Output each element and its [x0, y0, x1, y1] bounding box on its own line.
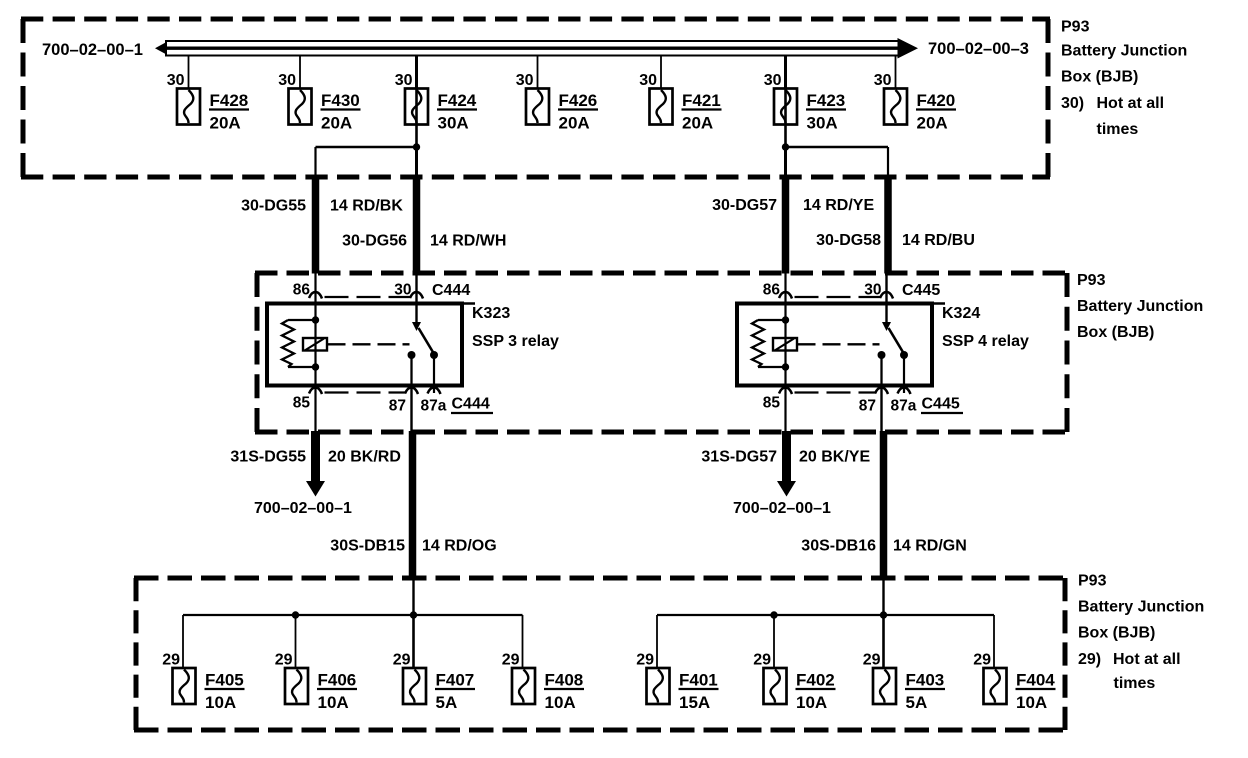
svg-text:30S-DB15: 30S-DB15: [330, 538, 405, 555]
wire: drop to fuse F408: [522, 615, 524, 668]
svg-text:20 BK/RD: 20 BK/RD: [328, 449, 401, 466]
svg-text:20A: 20A: [210, 114, 241, 133]
fuse F428 symbol: [177, 89, 200, 125]
svg-text:30-DG57: 30-DG57: [712, 197, 777, 214]
connector label C445 (bottom, underlined): [921, 396, 963, 414]
relay K324 coil actuator box: [773, 338, 797, 351]
svg-text:30: 30: [516, 72, 534, 89]
fuse F405 value label F405/10A: [205, 671, 245, 713]
wire: F424 junction continues down (30-DG56 feed): [415, 147, 418, 180]
wire: drop to fuse F407: [412, 615, 415, 668]
connector C445 top dashed line: [795, 296, 881, 298]
svg-text:C444: C444: [432, 282, 470, 299]
svg-text:30: 30: [864, 282, 881, 299]
off-page arrow for 31S-DG57: [777, 481, 796, 497]
svg-text:F420: F420: [917, 91, 956, 110]
wire bundle 30S-DB16 / 14 RD/GN: [880, 431, 888, 579]
off-page arrow for 31S-DG55: [306, 481, 325, 497]
svg-text:C445: C445: [922, 396, 960, 413]
fuse F428 value label F428/20A: [209, 91, 249, 133]
svg-text:30): 30): [1061, 95, 1084, 112]
relay K323 coil actuator box: [303, 338, 327, 351]
svg-text:P93: P93: [1078, 573, 1107, 590]
wire: relay K323 pin 87 below box: [410, 386, 412, 432]
connector C445 top row: pin 86 cavity: [779, 292, 792, 299]
junction node: [410, 611, 417, 618]
fuse F406 value label F406/10A: [317, 671, 357, 713]
wire: feed into bottom fuse bank at x=883.5: [882, 579, 884, 615]
wire bundle 31S-DG57 / 20 BK/YE (to ground splice): [782, 431, 791, 481]
svg-text:times: times: [1114, 675, 1156, 692]
dashed box: middle battery junction box P93: [255, 273, 1069, 432]
relay K324 box: [737, 304, 932, 386]
fuse F404 symbol: [984, 668, 1007, 704]
svg-text:29): 29): [1078, 651, 1101, 668]
svg-text:K323: K323: [472, 305, 510, 322]
wire: relay K324 pin 87a short stub to connector: [903, 386, 905, 393]
svg-text:14 RD/GN: 14 RD/GN: [893, 538, 967, 555]
wire: relay K323 pin 87a short stub to connector: [433, 386, 435, 393]
svg-text:86: 86: [763, 282, 781, 299]
junction node: [292, 611, 299, 618]
fuse F424 value label F424/30A: [437, 91, 477, 133]
svg-text:30: 30: [764, 72, 782, 89]
connector C445 top row: pin 30 cavity: [880, 292, 893, 299]
fuse F423 value label F423/30A: [806, 91, 846, 133]
svg-text:30: 30: [167, 72, 185, 89]
svg-text:700–02–00–1: 700–02–00–1: [42, 41, 143, 59]
svg-text:87a: 87a: [421, 398, 447, 415]
svg-text:C445: C445: [902, 282, 940, 299]
wire: relay K323 pin 87a stub: [433, 355, 435, 386]
svg-text:85: 85: [763, 395, 781, 412]
relay K323 switch blade: [419, 328, 434, 353]
svg-text:14 RD/BK: 14 RD/BK: [330, 198, 403, 215]
svg-text:20A: 20A: [321, 114, 352, 133]
fuse F420 value label F420/20A: [916, 91, 956, 133]
wire: into relay K323 pin 86: [314, 273, 316, 304]
svg-text:Hot at all: Hot at all: [1113, 651, 1181, 668]
svg-text:Battery Junction: Battery Junction: [1077, 298, 1203, 315]
relay K324 switch common from pin 30: [882, 304, 891, 332]
relay K323 contact 87 node: [408, 351, 416, 359]
svg-text:30-DG58: 30-DG58: [816, 232, 881, 249]
svg-text:10A: 10A: [796, 693, 827, 712]
wire: into relay K323 pin 30: [415, 273, 417, 304]
svg-text:P93: P93: [1077, 272, 1106, 289]
relay K324 switch blade: [889, 328, 904, 353]
annotation: bottom box P93 description: [1078, 573, 1204, 693]
svg-text:700–02–00–1: 700–02–00–1: [254, 500, 352, 517]
relay K324 actuation dashed link: [798, 343, 880, 345]
svg-text:30: 30: [639, 72, 657, 89]
svg-text:86: 86: [293, 282, 311, 299]
svg-text:29: 29: [863, 652, 881, 669]
svg-text:30A: 30A: [438, 114, 469, 133]
svg-text:F421: F421: [682, 91, 721, 110]
wire: feed into bottom fuse bank at x=413.5: [412, 579, 414, 615]
fuse F421 symbol: [650, 89, 673, 125]
svg-text:10A: 10A: [545, 693, 576, 712]
relay K323 coil resistance winding: [282, 320, 316, 367]
svg-text:Hot at all: Hot at all: [1097, 95, 1165, 112]
svg-text:87a: 87a: [891, 398, 917, 415]
wire: F423 junction continues down (30-DG57 feed): [784, 147, 787, 180]
svg-text:14 RD/YE: 14 RD/YE: [803, 197, 874, 214]
fuse F402 symbol: [764, 668, 787, 704]
fuse F408 value label F408/10A: [544, 671, 584, 713]
svg-text:14 RD/OG: 14 RD/OG: [422, 538, 497, 555]
svg-text:30A: 30A: [807, 114, 838, 133]
wire: into relay K324 pin 30: [885, 273, 887, 304]
wire: drop to fuse F401: [656, 615, 658, 668]
relay K324 contact 87 node: [878, 351, 886, 359]
svg-text:F424: F424: [438, 91, 477, 110]
svg-text:F407: F407: [436, 671, 475, 690]
svg-text:15A: 15A: [679, 693, 710, 712]
fuse F426 value label F426/20A: [558, 91, 598, 133]
svg-text:700–02–00–3: 700–02–00–3: [928, 40, 1029, 58]
fuse F401 value label F401/15A: [679, 671, 719, 713]
fuse F426 symbol: [526, 89, 549, 125]
svg-text:29: 29: [162, 652, 180, 669]
svg-text:K324: K324: [942, 305, 980, 322]
connector C444 top row: pin 86 cavity: [309, 292, 322, 299]
svg-text:31S-DG57: 31S-DG57: [701, 449, 777, 466]
wire: drop to fuse F402: [773, 615, 775, 668]
svg-text:20A: 20A: [917, 114, 948, 133]
svg-text:14 RD/BU: 14 RD/BU: [902, 232, 975, 249]
svg-text:Box (BJB): Box (BJB): [1077, 324, 1154, 341]
svg-text:5A: 5A: [436, 693, 458, 712]
svg-text:SSP 4 relay: SSP 4 relay: [942, 333, 1029, 350]
relay K323 actuation dashed link: [328, 343, 410, 345]
svg-text:30: 30: [395, 72, 413, 89]
wire: drop to fuse F405: [182, 615, 184, 668]
connector label C445 (top): [902, 282, 945, 304]
fuse F401 symbol: [647, 668, 670, 704]
wire: bus drop to fuse F420: [895, 56, 897, 90]
svg-text:87: 87: [389, 398, 406, 415]
relay K323 coil junction node (bottom): [312, 363, 319, 370]
svg-text:SSP 3 relay: SSP 3 relay: [472, 333, 559, 350]
svg-text:10A: 10A: [1016, 693, 1047, 712]
svg-text:F428: F428: [210, 91, 249, 110]
relay K324 coil resistance winding: [752, 320, 786, 367]
svg-text:20A: 20A: [559, 114, 590, 133]
connector C445 bottom dashed line: [795, 391, 876, 393]
fuse F421 value label F421/20A: [682, 91, 722, 133]
connector C444 bottom row: pin 87a cavity: [428, 388, 441, 395]
svg-text:14 RD/WH: 14 RD/WH: [430, 233, 506, 250]
connector C444 top row: pin 30 cavity: [410, 292, 423, 299]
svg-text:C444: C444: [452, 396, 490, 413]
wire: branch from F424 junction left then down (30-DG55 feed): [316, 147, 418, 180]
relay K323 box: [267, 304, 462, 386]
annotation: top box P93 description: [1061, 19, 1187, 139]
wire bundle 30-DG57 / 14 RD/YE: [782, 178, 790, 274]
fuse F406 symbol: [285, 668, 308, 704]
relay K323 contact 87a node: [430, 351, 438, 359]
fuse F423 symbol: [774, 89, 797, 125]
wire: relay K323 pin 85 below box: [314, 386, 316, 432]
wire bundle 30-DG56 / 14 RD/WH: [413, 178, 421, 274]
svg-text:29: 29: [502, 652, 520, 669]
dashed box: bottom battery junction box P93: [134, 578, 1067, 730]
wire: relay K324 pin 87a stub: [903, 355, 905, 386]
svg-text:29: 29: [275, 652, 293, 669]
wire bundle 30-DG55 / 14 RD/BK: [312, 178, 320, 274]
relay K324 coil supply wire (pin 86 to 85 through coil): [784, 304, 786, 387]
svg-text:F430: F430: [321, 91, 360, 110]
wire: branch from F423 junction right then down (30-DG58 feed): [785, 147, 889, 180]
relay K324 contact 87a node: [900, 351, 908, 359]
svg-text:5A: 5A: [906, 693, 928, 712]
fuse F402 value label F402/10A: [796, 671, 836, 713]
connector C445 bottom row: pin 85 cavity: [779, 388, 792, 395]
wire: bus drop to fuse F430: [299, 56, 301, 90]
wire: relay K323 pin 87 down: [410, 355, 412, 386]
svg-text:30-DG56: 30-DG56: [342, 233, 407, 250]
connector C444 bottom row: pin 85 cavity: [309, 388, 322, 395]
fuse F403 value label F403/5A: [905, 671, 945, 713]
wire: distribution bus: [183, 614, 523, 616]
junction node on F423 wire: [782, 143, 789, 150]
connector label C444 (top): [432, 282, 475, 304]
svg-text:F426: F426: [559, 91, 598, 110]
wire: distribution bus: [657, 614, 994, 616]
relay K323 coil junction node (top): [312, 316, 319, 323]
wire bundle 30S-DB15 / 14 RD/OG: [409, 431, 417, 579]
fuse F407 value label F407/5A: [435, 671, 475, 713]
svg-text:F402: F402: [796, 671, 835, 690]
svg-text:F401: F401: [679, 671, 718, 690]
svg-text:F403: F403: [906, 671, 945, 690]
svg-text:29: 29: [753, 652, 771, 669]
wire: relay K324 pin 87 below box: [880, 386, 882, 432]
wire: bus drop to fuse F426: [537, 56, 539, 90]
svg-text:85: 85: [293, 395, 311, 412]
svg-text:P93: P93: [1061, 19, 1090, 36]
dashed box: top battery junction box P93: [21, 19, 1050, 177]
fuse F404 value label F404/10A: [1016, 671, 1056, 713]
fuse F424 symbol: [405, 89, 428, 125]
fuse F407 symbol: [403, 668, 426, 704]
svg-text:29: 29: [393, 652, 411, 669]
wire: drop to fuse F404: [993, 615, 995, 668]
wire: F424 through-wire and output down to junction: [415, 89, 418, 147]
svg-text:700–02–00–1: 700–02–00–1: [733, 500, 831, 517]
fuse F403 symbol: [873, 668, 896, 704]
bus bar (hot feed): [155, 38, 918, 59]
connector C445 bottom row: pin 87 cavity: [875, 388, 888, 395]
wire: bus drop to fuse F424: [415, 56, 418, 90]
connector C444 top dashed line: [325, 296, 411, 298]
svg-text:times: times: [1097, 121, 1139, 138]
relay K324 coil junction node (bottom): [782, 363, 789, 370]
fuse F420 symbol: [884, 89, 907, 125]
svg-text:29: 29: [636, 652, 654, 669]
svg-text:20A: 20A: [682, 114, 713, 133]
svg-text:Box (BJB): Box (BJB): [1078, 625, 1155, 642]
fuse F408 symbol: [512, 668, 535, 704]
junction node on F424 wire: [413, 143, 420, 150]
svg-text:F405: F405: [205, 671, 244, 690]
wire: relay K324 pin 85 below box: [784, 386, 786, 432]
svg-text:Box (BJB): Box (BJB): [1061, 69, 1138, 86]
svg-text:30: 30: [278, 72, 296, 89]
svg-text:F423: F423: [807, 91, 846, 110]
svg-text:F406: F406: [318, 671, 357, 690]
connector C444 bottom dashed line: [325, 391, 406, 393]
fuse F405 symbol: [173, 668, 196, 704]
junction node: [880, 611, 887, 618]
relay K324 coil junction node (top): [782, 316, 789, 323]
wire: drop to fuse F403: [882, 615, 885, 668]
relay K323 switch common from pin 30: [412, 304, 421, 332]
wire: relay K324 pin 87 down: [880, 355, 882, 386]
svg-text:30: 30: [394, 282, 411, 299]
svg-text:30S-DB16: 30S-DB16: [801, 538, 876, 555]
connector C445 bottom row: pin 87a cavity: [898, 388, 911, 395]
svg-text:20 BK/YE: 20 BK/YE: [799, 449, 870, 466]
svg-text:30-DG55: 30-DG55: [241, 198, 306, 215]
wire: into relay K324 pin 86: [784, 273, 786, 304]
svg-text:Battery Junction: Battery Junction: [1078, 599, 1204, 616]
svg-text:87: 87: [859, 398, 876, 415]
wire: drop to fuse F406: [295, 615, 297, 668]
svg-text:Battery Junction: Battery Junction: [1061, 43, 1187, 60]
svg-text:29: 29: [973, 652, 991, 669]
wire: bus drop to fuse F421: [660, 56, 662, 90]
wire: bus drop to fuse F428: [188, 56, 190, 90]
fuse F430 symbol: [289, 89, 312, 125]
wire: bus drop to fuse F423: [784, 56, 787, 90]
svg-text:F404: F404: [1016, 671, 1055, 690]
svg-text:10A: 10A: [205, 693, 236, 712]
connector label C444 (bottom, underlined): [451, 396, 493, 414]
wire bundle 30-DG58 / 14 RD/BU: [884, 178, 892, 274]
wire bundle 31S-DG55 / 20 BK/RD (to ground splice): [311, 431, 320, 481]
svg-text:31S-DG55: 31S-DG55: [230, 449, 306, 466]
svg-text:10A: 10A: [318, 693, 349, 712]
svg-text:30: 30: [874, 72, 892, 89]
annotation: middle box P93 description: [1077, 272, 1203, 341]
junction node: [770, 611, 777, 618]
svg-text:F408: F408: [545, 671, 584, 690]
relay K323 coil supply wire (pin 86 to 85 through coil): [314, 304, 316, 387]
fuse F430 value label F430/20A: [321, 91, 361, 133]
wire: F423 through-wire and output down to junction: [784, 89, 787, 147]
connector C444 bottom row: pin 87 cavity: [405, 388, 418, 395]
